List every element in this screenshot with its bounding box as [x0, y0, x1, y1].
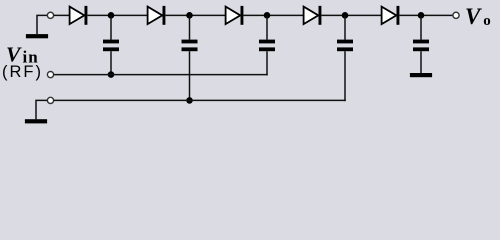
wire — [54, 99, 346, 101]
svg-text:o: o — [483, 13, 491, 29]
node — [418, 12, 425, 19]
diode D4 — [304, 6, 322, 25]
wire — [87, 14, 147, 16]
ground — [410, 73, 432, 77]
terminal input bottom — [47, 97, 53, 103]
label Vin — [6, 43, 39, 67]
capacitor C2 — [182, 15, 198, 100]
node — [186, 12, 193, 19]
wire — [321, 14, 381, 16]
diode D2 — [148, 6, 166, 25]
capacitor C5 — [413, 15, 429, 73]
node — [342, 12, 349, 19]
capacitor C3 — [259, 15, 275, 75]
node — [186, 97, 193, 104]
wire — [399, 14, 453, 16]
ground — [25, 119, 47, 123]
wire — [36, 100, 47, 119]
ground — [26, 34, 48, 38]
wire — [165, 14, 225, 16]
label Vo — [465, 4, 491, 29]
wire — [37, 15, 47, 34]
capacitor C4 — [337, 15, 353, 101]
terminal output — [453, 12, 459, 18]
terminal input top — [47, 12, 53, 18]
capacitor C1 — [103, 15, 119, 74]
wire — [243, 14, 303, 16]
node — [108, 71, 115, 78]
svg-text:V: V — [465, 4, 482, 29]
diode D5 — [382, 6, 400, 25]
diode D1 — [70, 6, 88, 25]
svg-text:(RF): (RF) — [2, 63, 43, 81]
terminal input mid — [47, 72, 53, 78]
node — [264, 12, 271, 19]
diode D3 — [226, 6, 244, 25]
wire — [54, 14, 70, 16]
node — [108, 12, 115, 19]
wire — [54, 74, 268, 76]
